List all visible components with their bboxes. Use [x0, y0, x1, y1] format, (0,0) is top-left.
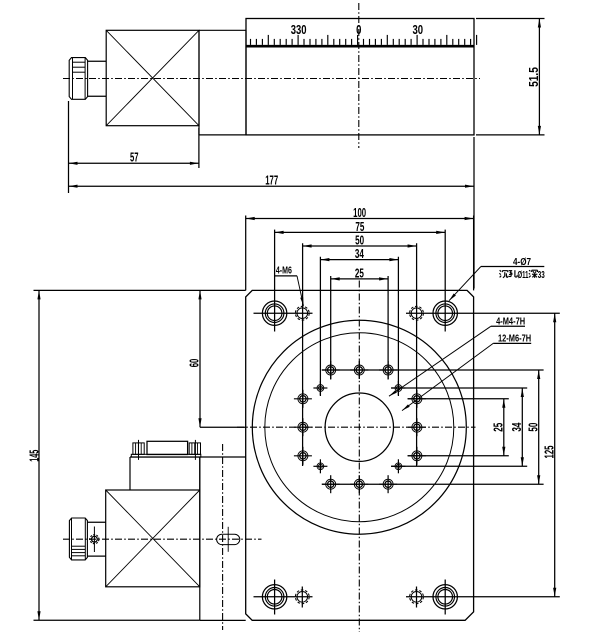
center bore circle [325, 393, 393, 461]
dimension 34 (right) [510, 388, 524, 466]
4-O7 counterbore corner holes [262, 301, 457, 609]
plate vertical centerline [358, 281, 360, 633]
horizontal centerline (top view) [63, 78, 480, 80]
dimension 100 [246, 206, 474, 220]
dimension 51.5 [476, 19, 545, 135]
dial graduation ticks [251, 35, 477, 45]
rotary table inner rim circle [265, 333, 454, 522]
svg-text:25: 25 [355, 266, 364, 280]
dial label 30 [413, 23, 424, 37]
svg-text:125: 125 [542, 445, 556, 458]
dimension 75 [275, 220, 446, 234]
knob shaft (top view) [88, 61, 107, 96]
dimension 57 [69, 101, 199, 193]
label counterbore O11 depth 33 (Chinese) [499, 270, 545, 281]
svg-text:50: 50 [355, 233, 364, 247]
12-M6 bolt holes [294, 361, 426, 493]
horizontal extension lines [322, 370, 544, 484]
D-sub connector body [147, 441, 188, 454]
svg-text:145: 145 [27, 450, 41, 462]
vertical extension lines [246, 216, 474, 467]
motor box with diagonals (top view) [106, 30, 199, 125]
svg-text:75: 75 [355, 220, 364, 234]
motor box (plan view) [106, 490, 200, 587]
set screw [90, 527, 99, 553]
svg-text:25: 25 [492, 423, 506, 432]
label 4-M4-7H [389, 317, 525, 397]
connector housing [130, 457, 200, 490]
motor knob cap (plan view) [69, 518, 87, 560]
svg-text:177: 177 [265, 174, 278, 188]
svg-text:33: 33 [538, 270, 545, 281]
svg-text:4-M6: 4-M6 [276, 265, 292, 276]
dial label 0 [356, 23, 361, 37]
D-sub right screw post [189, 440, 200, 460]
corner hole centerlines [254, 297, 560, 615]
motor horizontal centerline [63, 538, 262, 540]
D-sub left screw post [133, 440, 144, 460]
dimension 177 [69, 137, 475, 289]
bracket centerline [222, 444, 224, 630]
dimension 25 (top) [331, 266, 388, 280]
dimension 50 (right) [526, 370, 540, 484]
svg-text:57: 57 [130, 151, 139, 165]
4-M4 tapped holes [313, 381, 405, 473]
svg-text:100: 100 [353, 206, 366, 220]
knob shaft (plan view) [87, 522, 105, 556]
label 12-M6-7H [402, 334, 531, 411]
dial label 330 [291, 23, 307, 37]
dimension 60 [188, 290, 246, 427]
label 4-M6 [275, 265, 304, 305]
plate horizontal centerline [237, 426, 476, 428]
svg-text:Ø11: Ø11 [518, 270, 529, 281]
svg-text:50: 50 [526, 423, 540, 432]
dial ruler baseline [246, 45, 474, 48]
dimension 145 [27, 290, 41, 620]
svg-text:34: 34 [510, 423, 524, 432]
dimension 25 (right) [492, 399, 506, 456]
4-M6 corner tapped holes [295, 306, 423, 603]
plate bottom edge extension line [34, 619, 200, 621]
dimension 34 (top) [320, 247, 398, 261]
rotary table outer circle [252, 320, 466, 534]
plate top edge extension line [34, 289, 246, 291]
mounting bracket (plan view) [130, 457, 246, 620]
svg-text:51.5: 51.5 [527, 67, 541, 87]
bracket slot [217, 527, 240, 552]
svg-text:330: 330 [291, 23, 307, 37]
base plate outline (plan view) [246, 290, 474, 620]
stage body (top view) [246, 19, 474, 135]
svg-text:34: 34 [355, 247, 364, 261]
label 4-O7 counterbore [449, 257, 544, 301]
dimension 50 (top) [303, 233, 417, 247]
dial zero centerline [358, 3, 360, 148]
svg-text:60: 60 [188, 359, 202, 368]
svg-text:30: 30 [413, 23, 424, 37]
dimension 125 (right) [542, 313, 556, 597]
adjustment knob cap (top view) [69, 58, 87, 100]
D-sub connector base [131, 454, 201, 457]
mounting bracket (top view) [199, 30, 246, 135]
